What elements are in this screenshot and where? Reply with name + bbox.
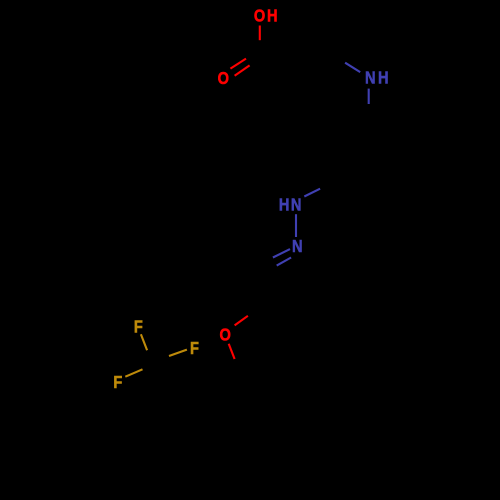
- svg-text:O: O: [220, 325, 231, 344]
- atom label F (right): [190, 339, 199, 358]
- bond C-F right half (gold): [169, 350, 187, 356]
- atom label F (top): [134, 317, 143, 336]
- atom label N (imine N): [292, 237, 303, 256]
- bond furan O-C2 half (red): [235, 316, 248, 326]
- atom label F (left): [113, 373, 122, 392]
- bond N-N full (blue): [295, 214, 297, 237]
- atom label O (of carboxyl OH): [254, 6, 265, 25]
- bond C-F left half (gold): [125, 369, 142, 376]
- bond furan O-C5 half (red): [229, 344, 235, 359]
- bond HO-C(=O) upper half (red): [259, 26, 261, 41]
- bond HN-CH2 half (blue): [304, 189, 320, 197]
- bond ring N-C6 half (blue): [368, 89, 370, 104]
- svg-text:F: F: [190, 339, 199, 358]
- svg-text:N: N: [292, 237, 303, 256]
- bond C=O outer line (red half): [230, 59, 246, 69]
- bond ring C2-N half (blue): [345, 63, 360, 72]
- atom label O (furan): [220, 325, 231, 344]
- svg-text:H: H: [267, 6, 278, 25]
- svg-text:N: N: [365, 68, 376, 87]
- atom label O (carboxyl C=O): [218, 69, 229, 88]
- atom label H (ring NH): [378, 68, 389, 87]
- svg-text:H: H: [279, 195, 290, 214]
- svg-text:O: O: [254, 6, 265, 25]
- bond C=N upper line (blue half): [273, 249, 290, 257]
- bond C=N lower line (blue half): [277, 258, 291, 266]
- svg-text:F: F: [134, 317, 143, 336]
- svg-text:O: O: [218, 69, 229, 88]
- bond C=O inner line (red half): [235, 65, 250, 75]
- atom label N (hydrazine HN): [291, 195, 302, 214]
- bond C-F top half (gold): [141, 334, 147, 350]
- svg-text:H: H: [378, 68, 389, 87]
- svg-text:F: F: [113, 373, 122, 392]
- atom label N (ring NH): [365, 68, 376, 87]
- atom label H (of carboxyl OH): [267, 6, 278, 25]
- svg-text:N: N: [291, 195, 302, 214]
- atom label H (hydrazine HN): [279, 195, 290, 214]
